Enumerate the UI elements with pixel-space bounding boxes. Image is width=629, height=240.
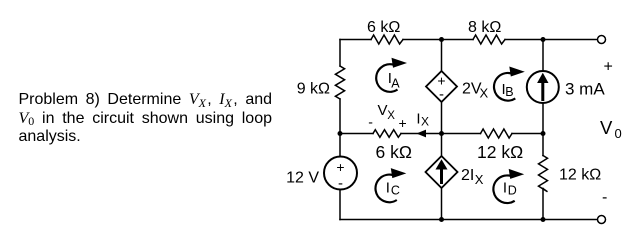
svg-text:V: V <box>378 102 388 119</box>
svg-text:6 kΩ: 6 kΩ <box>367 19 400 36</box>
svg-text:+: + <box>336 159 344 175</box>
svg-text:D: D <box>508 184 517 198</box>
svg-text:-: - <box>368 114 373 130</box>
svg-text:-: - <box>338 175 343 192</box>
svg-text:B: B <box>505 85 513 99</box>
svg-text:I: I <box>416 110 420 127</box>
svg-text:X: X <box>480 86 489 101</box>
svg-text:I: I <box>503 180 507 197</box>
wire mid vertical <box>441 40 443 220</box>
svg-text:3 mA: 3 mA <box>565 80 605 99</box>
svg-text:+: + <box>399 115 407 131</box>
label V0 output <box>600 117 622 141</box>
wire top rail <box>340 39 598 41</box>
resistor R6 12 kOhm right <box>539 156 548 192</box>
node junction bottom-mid <box>439 217 444 222</box>
label 2Vx <box>462 81 489 101</box>
wire left rail <box>339 40 341 220</box>
svg-text:-: - <box>602 189 607 206</box>
resistor R2 8 kOhm top <box>473 35 505 44</box>
svg-text:X: X <box>421 115 429 129</box>
svg-text:-: - <box>439 86 444 103</box>
svg-text:8 kΩ: 8 kΩ <box>468 19 501 36</box>
svg-text:2I: 2I <box>461 167 474 184</box>
label 2Ix <box>461 167 484 187</box>
node junction bottom-right <box>541 217 546 222</box>
loop arrow ID <box>493 169 524 203</box>
label Vx <box>378 102 396 122</box>
svg-text:6 kΩ: 6 kΩ <box>376 142 412 162</box>
arrow Ix on middle wire <box>416 130 426 138</box>
node junction mid-left <box>338 131 343 136</box>
wire right-mid vertical <box>542 40 544 220</box>
loop arrow IB <box>494 67 525 101</box>
dependent source U2 2Ix diamond <box>426 156 458 188</box>
voltage source V1 12 V <box>324 157 357 193</box>
dependent source U1 2Vx diamond <box>426 71 457 103</box>
resistor R4 6 kOhm middle <box>373 130 401 138</box>
svg-text:12 V: 12 V <box>286 170 319 187</box>
resistor R1 6 kOhm top <box>371 35 403 44</box>
svg-text:I: I <box>386 179 390 196</box>
terminal bottom right <box>598 216 606 224</box>
node junction top-right <box>541 37 546 42</box>
terminal top right <box>598 36 606 44</box>
svg-text:9 kΩ: 9 kΩ <box>297 81 330 98</box>
svg-text:X: X <box>387 110 395 122</box>
wire bottom rail <box>340 219 598 221</box>
svg-text:X: X <box>475 172 484 187</box>
svg-text:0: 0 <box>615 126 622 141</box>
svg-text:12 kΩ: 12 kΩ <box>477 142 523 162</box>
node junction mid-center <box>439 131 444 136</box>
current source I1 3 mA <box>527 71 559 103</box>
svg-text:12 kΩ: 12 kΩ <box>559 167 601 184</box>
node junction top-mid <box>439 37 444 42</box>
node junction mid-right <box>541 131 546 136</box>
loop arrow IC <box>375 168 406 202</box>
loop arrow IA <box>376 58 407 92</box>
resistor R5 12 kOhm middle <box>481 129 513 138</box>
svg-text:C: C <box>391 183 400 197</box>
svg-text:V: V <box>600 117 613 138</box>
svg-text:+: + <box>604 59 613 76</box>
resistor R3 9 kOhm left <box>335 66 344 99</box>
svg-text:A: A <box>391 76 400 90</box>
wire middle rail <box>340 133 543 135</box>
label Ix <box>416 110 429 128</box>
problem statement text <box>19 91 273 147</box>
